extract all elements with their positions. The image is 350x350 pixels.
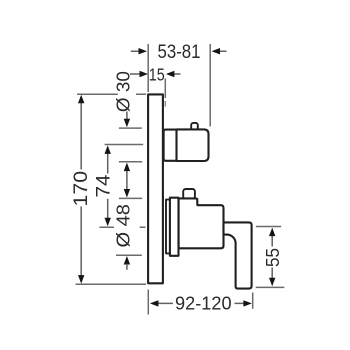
dimension 15 line xyxy=(130,73,181,75)
tick 74 bottom xyxy=(99,226,145,228)
svg-text:55: 55 xyxy=(262,248,283,267)
dimension 55 line xyxy=(271,235,273,278)
tick O48 top xyxy=(119,197,142,199)
tick 74 top xyxy=(105,144,144,146)
volume control button xyxy=(183,189,195,199)
extension line 55 top xyxy=(256,226,281,228)
extension line 170 bottom xyxy=(76,283,147,285)
svg-text:92-120: 92-120 xyxy=(175,292,232,313)
svg-text:74: 74 xyxy=(94,174,115,197)
extension line 92-120 right xyxy=(252,293,254,309)
arrow 15 left xyxy=(140,71,149,77)
arrow 55 bottom xyxy=(269,278,275,287)
arrow 74 top xyxy=(105,145,111,154)
wall plate xyxy=(148,94,163,283)
arrow O30 bottom xyxy=(124,163,130,172)
arrow 92-120 left xyxy=(150,300,159,306)
tick O30 top xyxy=(119,127,142,129)
arrow 15 right xyxy=(166,71,175,77)
arrow 53-81 left xyxy=(139,48,148,54)
thermostat knob U-handle xyxy=(177,129,209,161)
arrow O48 bottom xyxy=(124,256,130,265)
thermostat button top xyxy=(191,123,198,131)
dimension 92-120 line xyxy=(158,302,244,304)
extension line 53-81 left xyxy=(147,44,149,92)
extension line 55 bottom xyxy=(256,286,285,288)
thermostat sleeve xyxy=(164,130,177,161)
arrow 170 bottom xyxy=(78,275,84,284)
dimension 170 line xyxy=(80,103,82,276)
dimension 53-81 line xyxy=(131,50,227,52)
dimension O30 leader xyxy=(126,112,128,190)
svg-text:170: 170 xyxy=(71,171,92,207)
volume control sleeve xyxy=(170,198,179,256)
dimension 74 line xyxy=(107,153,109,218)
arrow 55 top xyxy=(269,228,275,237)
svg-text:Ø 48: Ø 48 xyxy=(114,204,134,248)
arrow 53-81 right xyxy=(212,48,221,54)
svg-text:53-81: 53-81 xyxy=(158,42,201,63)
arrow 170 top xyxy=(78,95,84,104)
extension line top shared (170 / O30) xyxy=(77,93,146,95)
extension line 53-81 right xyxy=(209,44,211,127)
tick O30 bottom xyxy=(119,161,142,163)
volume control body xyxy=(179,198,224,248)
svg-text:Ø 30: Ø 30 xyxy=(114,71,134,112)
volume control flange xyxy=(166,200,170,254)
arrow O48 top xyxy=(124,189,130,198)
arrow 74 bottom xyxy=(105,218,111,227)
svg-text:15: 15 xyxy=(149,64,165,84)
lever handle xyxy=(224,222,252,288)
extension line 15 right xyxy=(164,79,166,99)
tick O48 bottom xyxy=(116,254,142,256)
dimension O48 tail xyxy=(126,264,128,270)
arrow O30 top xyxy=(124,119,130,128)
extension line 92-120 left xyxy=(147,290,149,315)
arrow 92-120 right xyxy=(243,300,252,306)
